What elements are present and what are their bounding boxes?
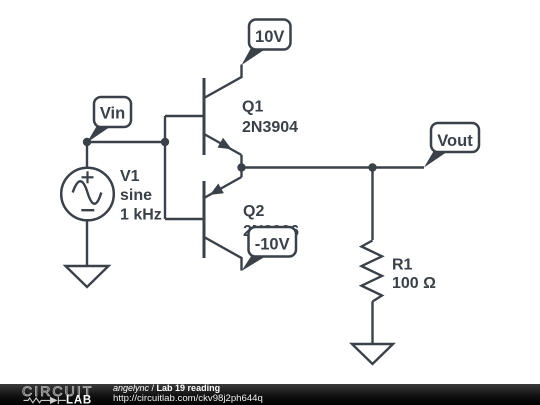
- svg-text:V1: V1: [120, 168, 140, 185]
- wire Vin node to base column: [87, 141, 165, 143]
- label Q2: [243, 203, 299, 240]
- svg-text:Vout: Vout: [437, 132, 473, 150]
- svg-text:Vin: Vin: [100, 105, 125, 123]
- power flag 10V: [242, 20, 291, 66]
- caption line 1: [113, 383, 220, 393]
- transistor Q1 2N3904: [204, 65, 242, 168]
- caption line 2: [113, 393, 263, 404]
- svg-text:R1: R1: [392, 257, 413, 274]
- wire V1 bottom: [86, 220, 88, 266]
- footer bar: [0, 384, 540, 405]
- ground under R1: [352, 344, 393, 364]
- svg-text:10V: 10V: [255, 28, 284, 46]
- power flag -10V: [242, 227, 297, 271]
- label R1 value: [392, 257, 436, 293]
- svg-text:Q2: Q2: [243, 203, 264, 220]
- svg-text:2N3904: 2N3904: [242, 119, 298, 136]
- CircuitLab logo: [0, 384, 110, 405]
- transistor Q2 2N3906: [204, 168, 242, 271]
- svg-text:Q1: Q1: [242, 99, 263, 116]
- wire base column vertical: [164, 116, 166, 219]
- Q2 emitter arrow: [210, 184, 224, 195]
- voltage source V1: [61, 168, 114, 221]
- net flag Vin: [87, 97, 131, 143]
- svg-text:100 Ω: 100 Ω: [392, 275, 436, 292]
- svg-text:sine: sine: [120, 187, 152, 204]
- wire R1 bottom: [371, 302, 373, 345]
- wire R1 top: [371, 168, 373, 241]
- label V1 value: [120, 168, 162, 223]
- resistor R1: [362, 241, 383, 302]
- svg-text:LAB: LAB: [66, 394, 92, 405]
- wire to Q2 base: [165, 218, 203, 220]
- ground under V1: [66, 266, 109, 287]
- label Q1: [242, 99, 298, 137]
- Q1 emitter arrow: [218, 138, 232, 149]
- wire V1 top: [86, 142, 88, 168]
- wire to Q1 base: [165, 115, 203, 117]
- junction node dots: [83, 138, 91, 146]
- svg-text:1 kHz: 1 kHz: [120, 206, 162, 223]
- svg-text:-10V: -10V: [255, 236, 290, 254]
- wire output rail: [242, 166, 425, 168]
- net flag Vout: [424, 123, 479, 168]
